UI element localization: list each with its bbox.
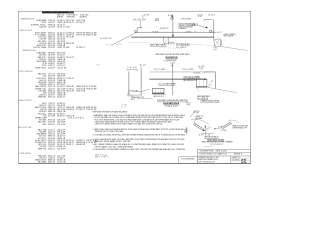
svg-text:833.59 SF: 833.59 SF — [66, 43, 75, 45]
svg-text:252.91 SF: 252.91 SF — [57, 67, 67, 69]
svg-text:666.63 SF: 666.63 SF — [76, 144, 86, 146]
svg-text:768.54 SF: 768.54 SF — [86, 88, 97, 90]
svg-text:83,415 CY: 83,415 CY — [57, 27, 66, 29]
svg-text:25: 25 — [241, 162, 247, 164]
svg-text:247.79 SF: 247.79 SF — [48, 27, 56, 29]
svg-text:66,433 CY: 66,433 CY — [57, 115, 66, 117]
svg-text:4525 LB: 4525 LB — [57, 161, 66, 163]
svg-text:EPOXY SHIM:: EPOXY SHIM: — [34, 47, 47, 49]
svg-text:25: 25 — [241, 160, 247, 162]
svg-text:STEEL FILL:: STEEL FILL: — [31, 24, 48, 26]
svg-text:637.73 SF: 637.73 SF — [76, 35, 86, 37]
svg-text:733.25 SF: 733.25 SF — [86, 109, 97, 111]
svg-text:95,346 CY: 95,346 CY — [48, 124, 56, 126]
svg-text:38,147 CY: 38,147 CY — [57, 24, 66, 26]
svg-text:6447 LB: 6447 LB — [76, 90, 86, 92]
svg-text:282.65 SF: 282.65 SF — [66, 90, 75, 92]
svg-text:6741 LB: 6741 LB — [48, 97, 56, 99]
svg-text:32,244 CY: 32,244 CY — [76, 109, 86, 111]
svg-text:68,111 CY: 68,111 CY — [66, 144, 75, 146]
svg-text:90,742 CY: 90,742 CY — [76, 22, 86, 24]
svg-text:40,192 CY: 40,192 CY — [48, 22, 56, 24]
svg-text:7955 LB: 7955 LB — [57, 22, 66, 24]
svg-text:31,559 CY: 31,559 CY — [76, 47, 86, 49]
svg-text:80,661 CY: 80,661 CY — [57, 97, 66, 99]
svg-text:174.37 SF: 174.37 SF — [57, 124, 66, 126]
svg-text:REINF PILE:: REINF PILE: — [38, 148, 47, 150]
svg-text:500.73 SF: 500.73 SF — [57, 47, 70, 49]
svg-text:846.67 SF: 846.67 SF — [86, 35, 97, 37]
svg-text:1064 LB: 1064 LB — [66, 109, 75, 111]
svg-text:7499 LB: 7499 LB — [48, 24, 56, 26]
svg-text:3961 LB: 3961 LB — [66, 27, 70, 29]
svg-text:675.13 SF: 675.13 SF — [48, 115, 56, 117]
svg-text:6042 LB: 6042 LB — [48, 161, 56, 163]
svg-text:9282 LB: 9282 LB — [66, 115, 75, 117]
svg-text:JOINT JOINT:: JOINT JOINT: — [41, 22, 47, 24]
svg-text:232.41 SF: 232.41 SF — [48, 47, 56, 49]
svg-text:743.49 SF: 743.49 SF — [57, 148, 66, 150]
svg-text:77,405 CY: 77,405 CY — [66, 78, 75, 80]
svg-text:531.15 SF: 531.15 SF — [66, 37, 75, 39]
svg-text:28,529 CY: 28,529 CY — [66, 57, 75, 59]
svg-text:82,226 CY: 82,226 CY — [66, 22, 75, 24]
svg-text:36,728 CY: 36,728 CY — [48, 67, 56, 69]
svg-text:33,306 CY: 33,306 CY — [48, 148, 56, 150]
